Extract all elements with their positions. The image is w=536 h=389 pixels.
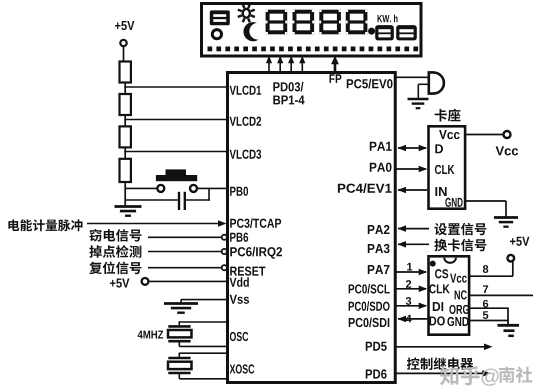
wire PD6 control [397, 372, 484, 374]
pin label Vss [230, 295, 249, 304]
wire setting signal to PA2 [398, 228, 429, 230]
wire +5V to Vdd [149, 280, 228, 282]
wire PA1 to D (bidirectional) [398, 147, 426, 149]
card pin label IN [435, 187, 446, 196]
wire PC0/SDO to DI (pin 3) [397, 305, 427, 307]
pin label PA0 [370, 163, 392, 172]
wire PA0 to CLK [397, 168, 427, 170]
wire power-drop to PC6/IRQ2 [148, 251, 222, 253]
EEPROM pin label DI [433, 302, 443, 311]
pin label OSC [230, 332, 248, 341]
pin label PB6 [230, 233, 248, 242]
wire PC0/SCL to CLK (pin 2) [397, 288, 427, 290]
pin number 2 [406, 280, 411, 288]
pin label PC4/EV1 [338, 183, 392, 193]
wire card-change signal to PA3 [398, 243, 429, 245]
card holder box [429, 126, 466, 208]
card pin label CLK [435, 165, 455, 174]
LCD battery icon [210, 10, 230, 25]
LCD segment dot row [208, 47, 419, 52]
label theft signal 窃电信号 [89, 229, 141, 242]
resistor R1 [120, 62, 131, 83]
EEPROM pin label Vcc [450, 274, 467, 283]
watermark @ [482, 369, 499, 386]
wire PD5 control [397, 346, 486, 348]
LCD sun icon [238, 4, 255, 22]
crystal Y1 4MHZ [179, 321, 227, 323]
ground (card) [494, 216, 518, 219]
wire energy pulse to PC3/TCAP [87, 223, 219, 225]
wire card Vcc to terminal [465, 134, 504, 136]
pin number 6 [483, 300, 488, 308]
push button S1 [166, 169, 187, 175]
ground (Vss) [164, 302, 198, 305]
LCD 7-seg digit 4 [346, 10, 368, 35]
+5V supply label (ladder) [115, 21, 134, 30]
EEPROM pin label CS [435, 269, 448, 278]
label energy metering pulse 电能计量脉冲 [8, 219, 82, 231]
wire R3-R4 + VLCD3 tap [124, 147, 126, 159]
+5V terminal (EEPROM) [508, 255, 515, 262]
wire card GND to ground [465, 200, 506, 202]
wire GND pin 5 to ground [469, 320, 509, 322]
pin label PD6 [366, 369, 387, 378]
Vcc label [496, 146, 519, 155]
crystal Y2 [179, 352, 227, 354]
pin label XOSC [230, 364, 255, 373]
wire LCD segment drive 4 [301, 62, 303, 72]
pin number 7 [483, 285, 488, 293]
card pin label D [435, 144, 443, 153]
EEPROM pin label DO [430, 316, 445, 325]
capacitor C1 [178, 192, 180, 210]
wire Vss to ground [181, 299, 227, 301]
label reset signal 复位信号 [89, 261, 141, 274]
card pin label Vcc [439, 130, 460, 139]
ground (ladder) [115, 205, 142, 208]
watermark name [499, 367, 532, 383]
wire buzzer to ground [418, 83, 428, 85]
LCD 7-seg digit 3 [319, 10, 341, 35]
EEPROM pin label CLK [429, 284, 449, 293]
wire ORG pin 6 [469, 307, 509, 309]
pin label PA7 [368, 265, 390, 274]
wire LCD segment drive 3 [290, 62, 292, 72]
watermark zhihu [440, 366, 480, 385]
ground (buzzer) [408, 98, 429, 101]
LCD 7-seg digit 1 [266, 10, 288, 35]
label setting signal 设置信号 [434, 223, 486, 236]
pin label PC3/TCAP [230, 218, 281, 228]
wire Vcc pin 8 to +5V terminal [469, 275, 513, 277]
pin label PC0/SCL [349, 284, 390, 294]
Vcc terminal [504, 131, 511, 138]
wire R2-R3 + VLCD2 tap [124, 115, 126, 127]
pin label RESET [230, 267, 265, 276]
EEPROM pin label NC [455, 290, 467, 299]
pin number 5 [483, 311, 488, 319]
wire PA7 to CS (pin 1) [397, 271, 427, 273]
pin label PD03/ [273, 82, 303, 92]
wire terminal to R1 [123, 46, 125, 62]
wire LCD segment drive 1 [268, 62, 270, 72]
wire IN to PC4/EV1 [398, 189, 427, 191]
pin label VLCD3 [230, 150, 262, 159]
pin label PC5/EV0 [347, 79, 393, 89]
card pin label GND [445, 198, 462, 207]
LCD circle indicator [212, 30, 221, 39]
resistor R2 [120, 94, 131, 115]
label control relay 控制继电器 [407, 357, 473, 370]
pin label PB0 [230, 187, 248, 196]
wire NC pin 7 [469, 294, 533, 296]
wire capacitor branch [208, 188, 210, 200]
LCD decimal point [368, 28, 375, 35]
4MHZ label [138, 331, 164, 339]
wire theft signal to PB6 [148, 236, 222, 238]
pin number 3 [406, 297, 411, 305]
EEPROM pin label GND [447, 317, 468, 326]
+5V terminal (Vdd) [142, 278, 149, 285]
wire reset signal to RESET [148, 267, 222, 269]
+5V label (Vdd) [110, 279, 129, 288]
pin label VLCD1 [230, 86, 262, 95]
pin label Vdd [230, 277, 249, 287]
LCD small digit 2 [396, 25, 417, 40]
EEPROM pin-1 dot [430, 261, 436, 267]
EEPROM U2 box [429, 256, 470, 334]
resistor R3 [120, 126, 131, 147]
EEPROM pin label ORG [449, 305, 469, 314]
EEPROM notch [444, 258, 456, 263]
pin number 4 [406, 315, 412, 323]
pin label FP [329, 74, 341, 83]
LCD small digit 1 [375, 25, 394, 40]
LCD 7-seg digit 2 [293, 10, 315, 35]
pin number 1 [407, 263, 412, 271]
pin label PA3 [368, 244, 390, 253]
+5V label (EEPROM) [510, 237, 529, 246]
KW.h unit label [377, 15, 397, 23]
label power-drop detect 掉点检测 [89, 245, 141, 258]
wire button right to PB0 [197, 187, 227, 189]
MCU U1 box [228, 73, 396, 383]
ground (EEPROM) [507, 308, 509, 325]
wire LCD segment drive 2 [279, 62, 281, 72]
pin label PA2 [368, 225, 390, 234]
wire R1-R2 + VLCD1 tap [124, 83, 126, 95]
pin label PA1 [370, 142, 392, 151]
pin number 8 [483, 265, 488, 273]
resistor R4 [120, 159, 131, 182]
LCD display module [202, 4, 422, 57]
+5V terminal (ladder) [120, 40, 126, 46]
pin label PC0/SDI [349, 318, 390, 328]
wire R4 to ground [124, 182, 126, 207]
label card holder 卡座 [435, 109, 461, 122]
pin label PD5 [366, 342, 387, 351]
pin label PC6/IRQ2 [230, 247, 282, 259]
LCD moon icon [243, 22, 258, 41]
pin label PC0/SDO [349, 301, 390, 311]
wire DO to PC0/SDI (pin 4) [398, 318, 427, 320]
pin label BP1-4 [273, 95, 304, 104]
buzzer BZ1 [429, 72, 444, 93]
wire PC5/EV0 to buzzer [395, 76, 429, 78]
wire button left to ladder ground [125, 187, 157, 189]
pin label VLCD2 [230, 117, 262, 126]
wire FP backplane [334, 62, 337, 72]
label card-change signal 换卡信号 [434, 239, 486, 252]
